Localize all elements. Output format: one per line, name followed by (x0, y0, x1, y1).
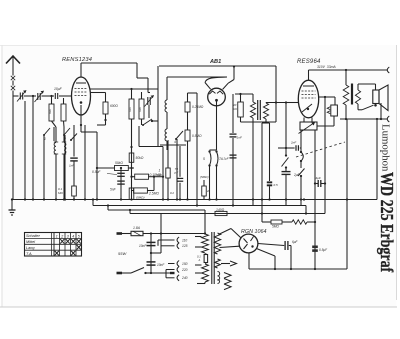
svg-text:010: 010 (128, 107, 132, 112)
svg-text:(5MΩ): (5MΩ) (136, 196, 144, 200)
svg-text:5: 5 (78, 235, 80, 239)
svg-text:240: 240 (181, 276, 188, 280)
svg-text:T.A.: T.A. (26, 252, 33, 256)
svg-text:0.2: 0.2 (170, 191, 174, 195)
svg-text:Mittel: Mittel (26, 240, 35, 244)
svg-text:Lang: Lang (26, 246, 35, 250)
svg-text:10nF: 10nF (139, 244, 147, 248)
svg-text:2nF: 2nF (290, 141, 296, 145)
svg-text:3: 3 (67, 235, 69, 239)
svg-text:4: 4 (174, 140, 176, 144)
svg-text:20: 20 (206, 189, 211, 193)
svg-text:0.1: 0.1 (197, 255, 201, 259)
svg-text:1nF: 1nF (69, 164, 74, 168)
svg-text:4: 4 (72, 235, 74, 239)
svg-text:Lumophon: Lumophon (380, 124, 392, 172)
svg-text:1: 1 (56, 235, 58, 239)
svg-text:10nF: 10nF (157, 263, 165, 267)
svg-text:RENS1234: RENS1234 (62, 57, 92, 63)
svg-text:50kΩ: 50kΩ (115, 161, 123, 165)
svg-text:0.5: 0.5 (274, 183, 279, 187)
svg-text:2μF: 2μF (223, 157, 229, 161)
svg-text:7A: 7A (219, 157, 223, 161)
svg-text:1: 1 (159, 169, 161, 173)
svg-text:310V 33mA: 310V 33mA (317, 65, 336, 69)
svg-text:5nF: 5nF (110, 188, 117, 192)
svg-text:WD 225 Erbgraf: WD 225 Erbgraf (377, 172, 397, 273)
svg-text:140Ω: 140Ω (216, 208, 225, 212)
svg-text:0.5μF: 0.5μF (319, 248, 328, 252)
svg-text:125: 125 (182, 244, 188, 248)
svg-text:016: 016 (138, 107, 142, 112)
svg-text:A: A (198, 258, 201, 262)
svg-text:2.5MΩ: 2.5MΩ (148, 192, 159, 196)
svg-text:50kΩ: 50kΩ (136, 156, 144, 160)
svg-text:10μF: 10μF (54, 87, 63, 91)
svg-text:AB1: AB1 (209, 59, 221, 65)
svg-text:5MΩ: 5MΩ (272, 225, 279, 229)
svg-text:(5MΩ): (5MΩ) (200, 175, 208, 179)
svg-text:220: 220 (181, 268, 188, 272)
svg-text:600Ω: 600Ω (110, 104, 118, 108)
svg-text:Schalter: Schalter (26, 234, 41, 238)
svg-text:150: 150 (182, 262, 188, 266)
svg-text:5: 5 (203, 157, 205, 161)
svg-text:110: 110 (182, 238, 187, 242)
svg-text:2: 2 (60, 235, 63, 239)
svg-text:600: 600 (48, 109, 52, 114)
svg-text:0.25MΩ: 0.25MΩ (192, 105, 204, 109)
svg-text:0.5μF: 0.5μF (92, 170, 101, 174)
svg-text:55W: 55W (118, 251, 127, 256)
svg-text:RGN 1064: RGN 1064 (241, 229, 266, 235)
svg-text:MΩ: MΩ (157, 173, 162, 177)
svg-text:1.8A: 1.8A (133, 226, 141, 230)
svg-text:MΩ: MΩ (58, 191, 63, 195)
